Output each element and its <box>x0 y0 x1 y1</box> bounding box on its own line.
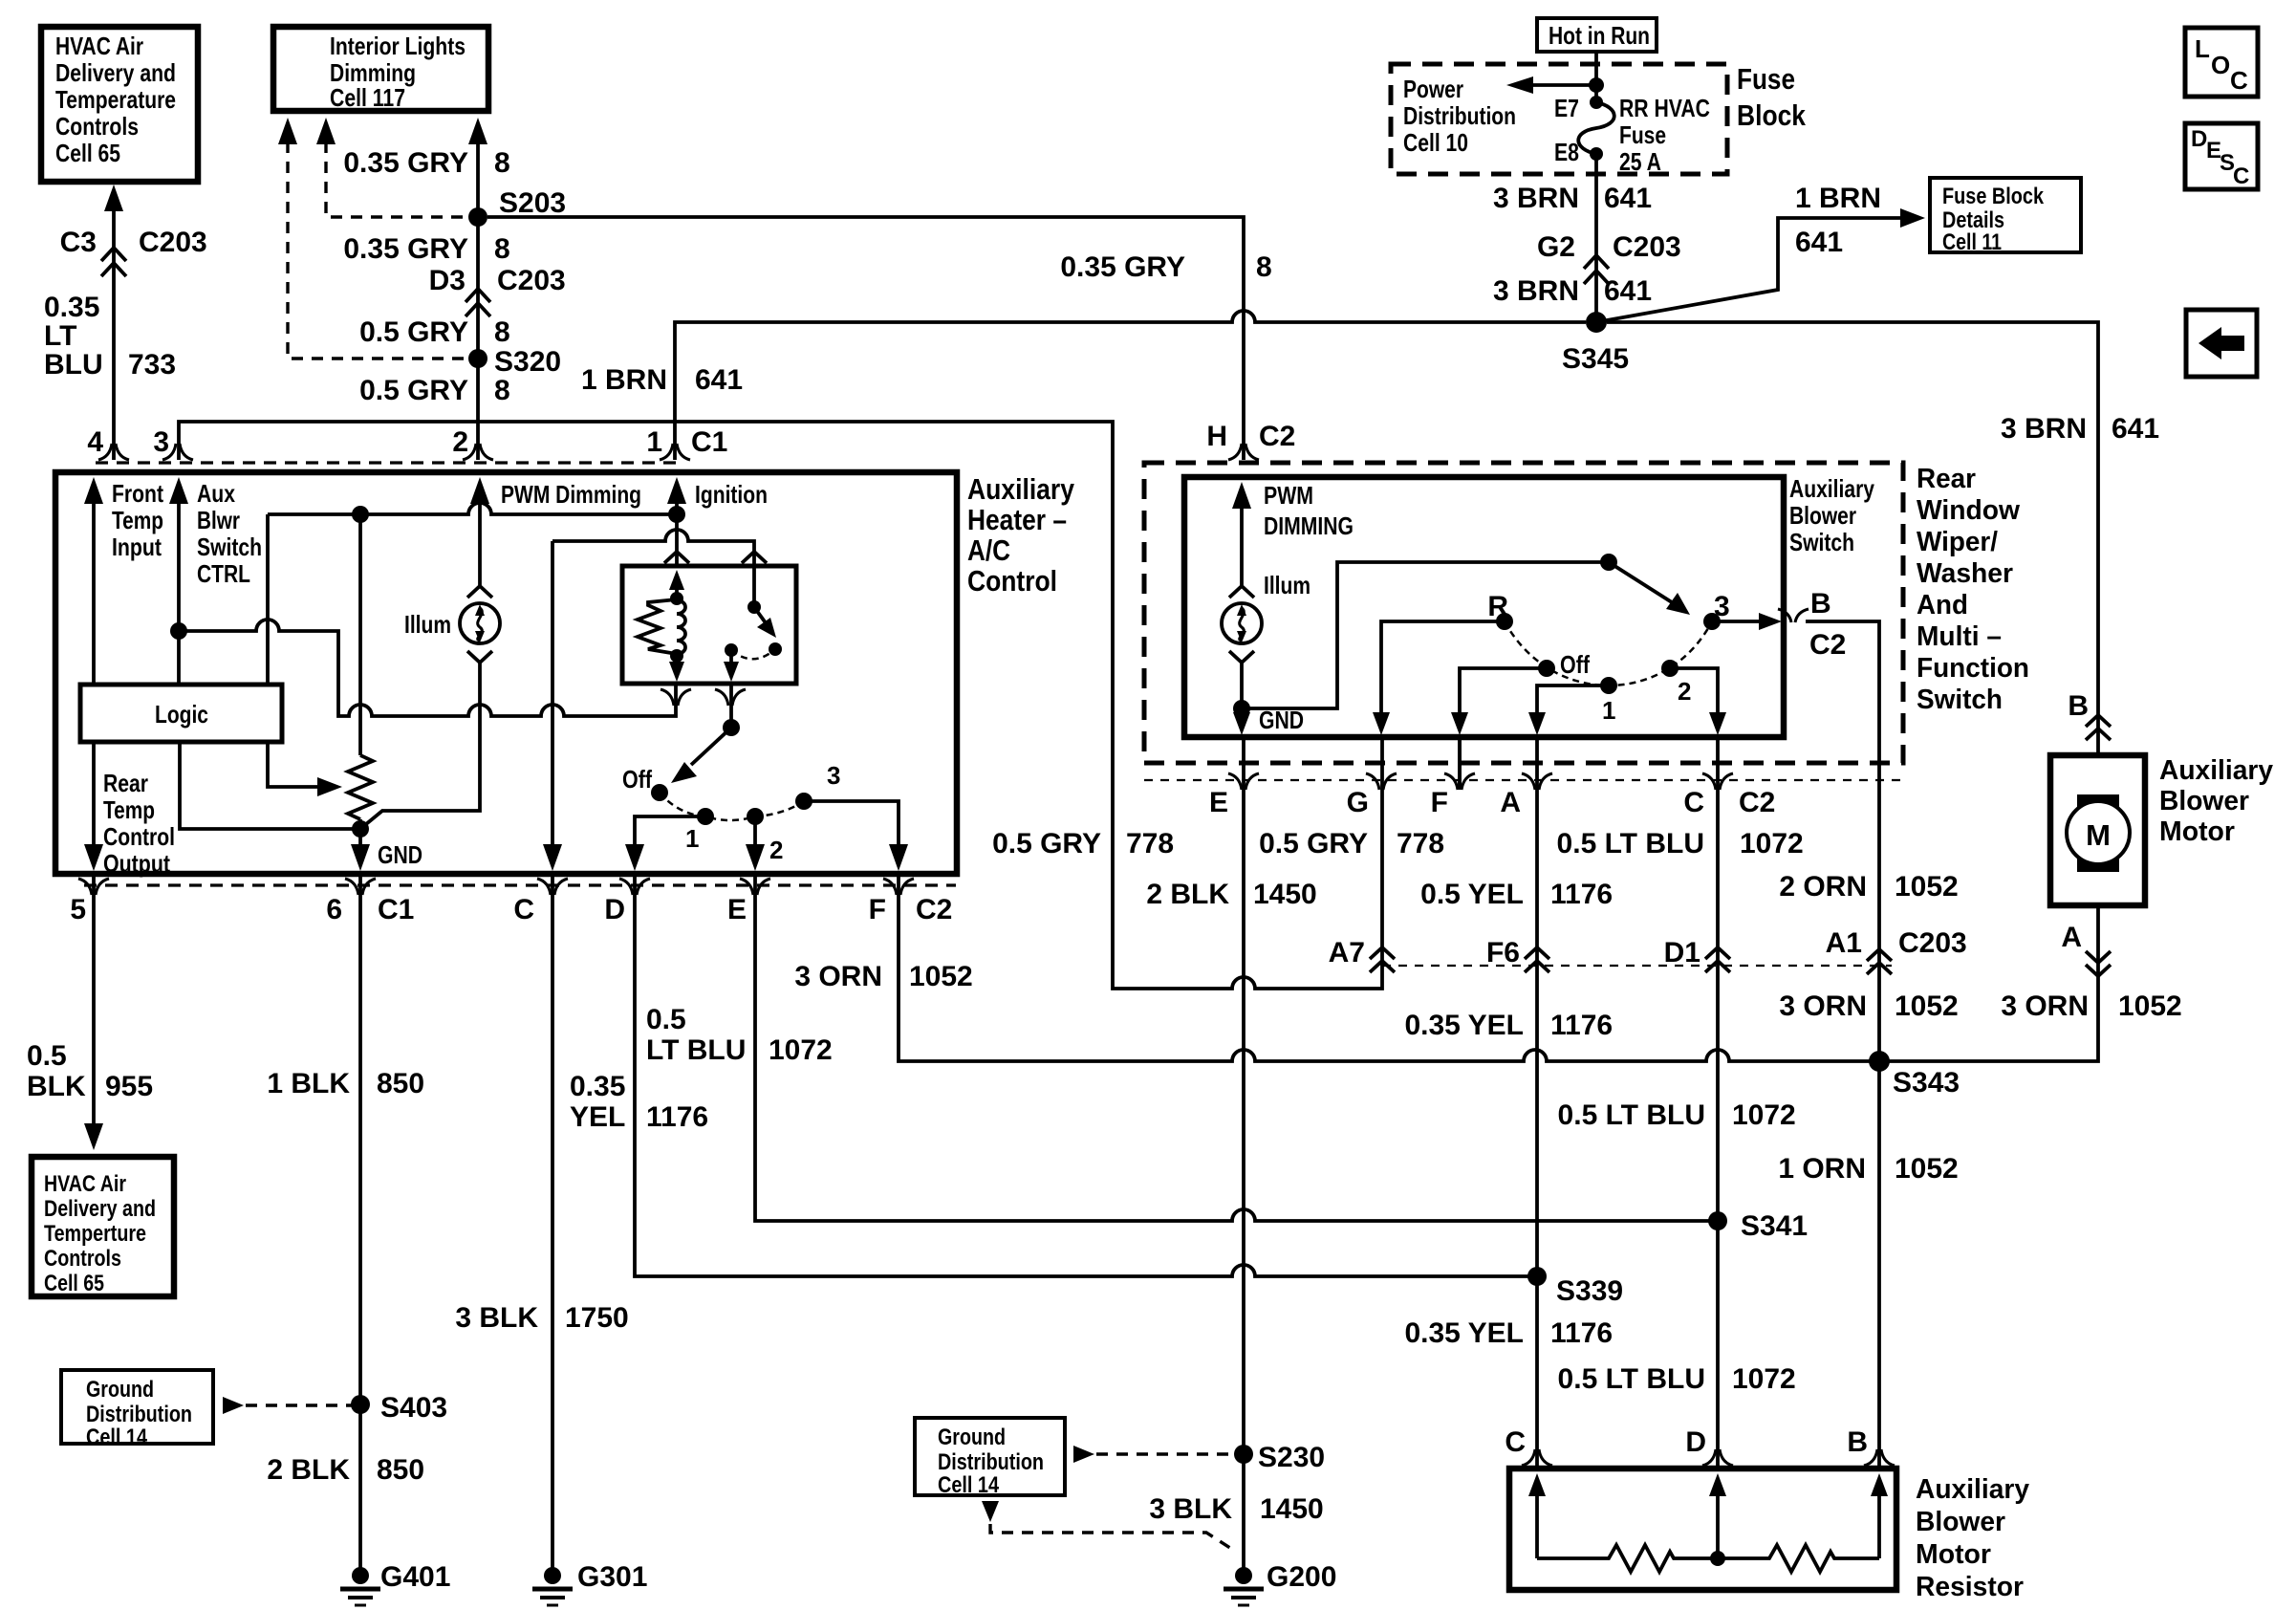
svg-text:F6: F6 <box>1486 937 1520 968</box>
pin brace 5 <box>78 879 109 895</box>
wire 3 ORN 1052 motor A to S343 <box>1879 905 2098 1061</box>
splice S339 <box>1527 1267 1547 1286</box>
svg-text:B: B <box>1810 588 1831 620</box>
splice S341 <box>1708 1211 1727 1230</box>
connector D1 C203 chevrons on C wire <box>1664 937 1730 972</box>
dashed link to S403 <box>223 1397 354 1414</box>
svg-text:H: H <box>1206 421 1227 452</box>
label 1 ORN 1052 (below S343) <box>1778 1153 1958 1185</box>
pin: Aux Blwr Switch CTRL (arrow up) <box>169 477 262 685</box>
connector D3 / C203 chevrons <box>466 289 490 316</box>
svg-text:1072: 1072 <box>769 1034 833 1066</box>
svg-text:Blwr: Blwr <box>197 506 240 534</box>
contact 2 <box>1661 660 1679 677</box>
label Auxiliary Blower Motor <box>2159 755 2273 847</box>
svg-text:E: E <box>727 894 747 925</box>
pin brace D <box>619 879 650 895</box>
svg-text:850: 850 <box>377 1068 424 1099</box>
label 3 ORN 1052 (above S343) <box>1779 990 1958 1022</box>
svg-text:Switch: Switch <box>197 533 262 561</box>
box: HVAC Air Delivery and Temperture Controls Cell 65 (bottom) <box>32 1157 174 1296</box>
svg-text:733: 733 <box>128 349 176 381</box>
svg-text:Off: Off <box>622 765 652 794</box>
resistor element D-B <box>1718 1545 1879 1572</box>
svg-text:LT BLU: LT BLU <box>646 1034 746 1066</box>
svg-text:1: 1 <box>685 824 699 853</box>
pin: Front Temp Input (arrow up) <box>84 477 163 685</box>
svg-text:2: 2 <box>452 426 468 458</box>
svg-text:S339: S339 <box>1556 1275 1623 1307</box>
label 2 BLK 850 <box>267 1454 424 1486</box>
svg-text:641: 641 <box>1604 275 1652 307</box>
svg-text:Off: Off <box>1560 650 1590 679</box>
svg-text:3: 3 <box>153 426 169 458</box>
svg-text:Fuse Block: Fuse Block <box>1942 184 2045 209</box>
svg-text:Cell 117: Cell 117 <box>330 83 405 112</box>
svg-text:Fuse: Fuse <box>1619 120 1666 149</box>
wire R to pin G <box>1373 621 1505 735</box>
wire pin C riser (x578 down) <box>543 541 562 871</box>
svg-text:Temp: Temp <box>112 506 163 534</box>
svg-text:Cell 10: Cell 10 <box>1403 128 1468 157</box>
pin: PWM DIMMING input (arrow up) <box>1232 481 1354 585</box>
wire 3 to pin B (arrow right) <box>1712 613 1782 630</box>
blower switch pivot <box>1600 554 1617 571</box>
svg-text:F: F <box>1431 787 1448 818</box>
svg-text:1750: 1750 <box>565 1302 629 1334</box>
wiper arrow from Logic to pot <box>268 742 342 796</box>
svg-text:2 ORN: 2 ORN <box>1779 871 1867 903</box>
svg-text:HVAC Air: HVAC Air <box>55 32 143 60</box>
label 0.5 LT BLU 1072 (pin E) <box>646 1004 833 1066</box>
svg-text:D3: D3 <box>429 265 466 296</box>
wire 0.5 LT BLU 1072: heater pin E right to S341 <box>755 874 1718 1221</box>
svg-text:C: C <box>1683 787 1704 818</box>
box: Auxiliary Heater A/C Control <box>55 472 957 874</box>
arrow to Power Distribution (left) <box>1506 76 1596 94</box>
label 0.5 LT BLU 1072 (switch pin C) <box>1557 828 1804 859</box>
label 0.5 YEL 1176 <box>1420 879 1613 910</box>
wire 1 BLK 850: heater pin 6 to S403 to G401 <box>358 874 362 1568</box>
splice S343 <box>1869 1051 1890 1072</box>
svg-text:C203: C203 <box>1898 927 1967 959</box>
dashed box: Fuse Block <box>1391 64 1727 174</box>
svg-text:M: M <box>2086 818 2111 852</box>
svg-text:PWM Dimming: PWM Dimming <box>501 480 641 509</box>
svg-text:E7: E7 <box>1554 94 1579 122</box>
svg-text:3 BRN: 3 BRN <box>2001 413 2087 445</box>
pin brace E (switch row) <box>1228 773 1259 790</box>
svg-text:Motor: Motor <box>2159 816 2235 847</box>
relay coil <box>677 600 685 654</box>
connector chevrons motor A (pointing down) <box>2086 951 2111 976</box>
svg-text:Delivery and: Delivery and <box>55 58 176 87</box>
wire 2 BLK 1450: switch pin E down to S230 and G200 <box>1242 737 1245 1568</box>
svg-text:1072: 1072 <box>1732 1363 1796 1395</box>
label D3 C203 <box>429 265 566 296</box>
svg-text:1052: 1052 <box>2118 990 2182 1022</box>
svg-text:8: 8 <box>494 147 510 179</box>
svg-text:D: D <box>1685 1426 1706 1458</box>
svg-text:Distribution: Distribution <box>86 1402 192 1427</box>
svg-text:Switch: Switch <box>1917 685 2003 715</box>
svg-text:C1: C1 <box>691 426 727 458</box>
dashed box: Rear Window Wiper/Washer And Multi-Function Switch <box>1144 463 1903 763</box>
wire 3 BLK 1750: heater pin C to G301 <box>551 874 554 1568</box>
svg-text:And: And <box>1917 590 1968 620</box>
svg-text:0.5 GRY: 0.5 GRY <box>992 828 1101 859</box>
svg-text:Auxiliary: Auxiliary <box>967 472 1075 506</box>
label 3 BRN 641 (below G2) <box>1493 275 1652 307</box>
wire 3 ORN 1052: heater pin F right to S343 <box>899 874 1879 1061</box>
svg-text:3 ORN: 3 ORN <box>794 961 882 992</box>
contact R <box>1496 613 1513 630</box>
svg-text:8: 8 <box>1256 251 1272 283</box>
wire gnd node to switch pivot <box>1242 562 1609 708</box>
svg-text:1 BRN: 1 BRN <box>581 364 667 396</box>
pin brace 1 <box>660 444 690 460</box>
svg-text:8: 8 <box>494 375 510 406</box>
svg-text:Interior Lights: Interior Lights <box>330 32 466 60</box>
connector A1 C203 chevrons on ORN wire <box>1826 927 1967 974</box>
wire 3 BRN 641: S345 left run to C1 pin 1 riser <box>675 311 1586 460</box>
connector C3 / C203 (in-line chevrons) <box>101 248 126 276</box>
svg-text:3 ORN: 3 ORN <box>2001 990 2089 1022</box>
box: DESC <box>2185 123 2258 189</box>
resistor internal: C leg arrow <box>1528 1473 1546 1558</box>
resistor pin braces C D B <box>1522 1449 1552 1466</box>
wire logic ground to GND node <box>180 742 360 829</box>
box: Ground Distribution Cell 14 (left) <box>61 1370 213 1450</box>
svg-text:0.35 GRY: 0.35 GRY <box>343 147 468 179</box>
svg-text:1450: 1450 <box>1260 1493 1324 1525</box>
label 3 ORN 1052 (motor A) <box>2001 990 2181 1022</box>
svg-text:1 ORN: 1 ORN <box>1778 1153 1866 1185</box>
svg-text:0.35: 0.35 <box>44 292 99 323</box>
wire contact 1 to pin D <box>625 816 705 871</box>
svg-text:A1: A1 <box>1826 927 1862 959</box>
svg-text:Illum: Illum <box>1264 571 1310 599</box>
wire aux blwr to relay coil (hops x280, x377, x502, x578) <box>179 620 676 716</box>
svg-text:D1: D1 <box>1664 937 1700 968</box>
svg-text:Hot in Run: Hot in Run <box>1549 21 1650 50</box>
svg-text:0.5 GRY: 0.5 GRY <box>359 375 468 406</box>
svg-text:Distribution: Distribution <box>1403 101 1516 130</box>
ground G401 <box>340 1561 450 1605</box>
connector row below switch (dashed) <box>1144 779 1902 781</box>
svg-text:1176: 1176 <box>1550 1010 1613 1041</box>
svg-text:BLK: BLK <box>27 1071 86 1102</box>
svg-text:641: 641 <box>695 364 743 396</box>
svg-text:641: 641 <box>2112 413 2159 445</box>
pin brace G <box>1366 773 1397 790</box>
motor: Auxiliary Blower Motor <box>2050 755 2145 905</box>
wire 1 to pin A <box>1528 685 1609 735</box>
label Rear Window Wiper/Washer And Multi-Function Switch <box>1917 464 2029 715</box>
svg-text:0.5 YEL: 0.5 YEL <box>1420 879 1524 910</box>
label 2 ORN 1052 (switch B riser) <box>1779 871 1958 903</box>
svg-text:Heater –: Heater – <box>967 503 1067 536</box>
svg-text:C203: C203 <box>139 227 207 258</box>
svg-text:1072: 1072 <box>1732 1099 1796 1131</box>
pin brace F <box>1444 773 1475 790</box>
wire 0.35 YEL 1176: switch pin A down through F6 to S339 and resistor C <box>1535 737 1539 1469</box>
relay resistor (parallel with coil) <box>638 599 677 654</box>
wire Rear Temp Control Output (logic to pin 5) <box>84 742 175 878</box>
svg-text:0.35 YEL: 0.35 YEL <box>1404 1010 1524 1041</box>
svg-text:B: B <box>1847 1426 1868 1458</box>
box: HVAC Air Delivery and Temperature Controls Cell 65 (top left) <box>41 27 198 182</box>
splice S230 <box>1234 1445 1253 1464</box>
connector brace below relay contact <box>715 689 746 706</box>
svg-text:0.5 GRY: 0.5 GRY <box>1259 828 1368 859</box>
svg-text:Window: Window <box>1917 495 2020 526</box>
box: Logic <box>80 685 282 742</box>
svg-text:3: 3 <box>1714 591 1730 622</box>
pin: PWM Dimming (arrow up) <box>470 477 641 585</box>
svg-text:A/C: A/C <box>967 533 1010 567</box>
svg-text:O: O <box>2211 51 2230 79</box>
svg-text:Auxiliary: Auxiliary <box>1916 1474 2029 1505</box>
svg-text:C2: C2 <box>1739 787 1775 818</box>
svg-text:Controls: Controls <box>55 112 139 141</box>
svg-text:778: 778 <box>1126 828 1174 859</box>
connector chevron on relay right riser <box>742 552 767 563</box>
svg-text:C2: C2 <box>916 894 952 925</box>
box: Auxiliary Blower Switch (inner solid) <box>1184 477 1784 737</box>
wire lamp to GND pin <box>1240 663 1244 709</box>
svg-text:Temp: Temp <box>103 795 155 824</box>
wire contact 3 to pin F <box>804 801 908 871</box>
svg-text:G: G <box>1347 787 1369 818</box>
wire 0.5 GRY 778: C1 pin3 up, right, down to A7 and switch G pin <box>179 422 1382 989</box>
label Auxiliary Blower Motor Resistor <box>1916 1474 2029 1602</box>
svg-text:Input: Input <box>112 533 162 561</box>
svg-text:S230: S230 <box>1258 1442 1325 1473</box>
svg-text:Auxiliary: Auxiliary <box>1789 474 1874 503</box>
svg-text:Fuse: Fuse <box>1737 62 1795 96</box>
svg-text:2: 2 <box>769 836 783 864</box>
svg-text:Washer: Washer <box>1917 558 2013 589</box>
wire 0.35 GRY 8 (vertical through S203/S320 to C1 pin 2) <box>468 118 487 460</box>
box: Auxiliary Blower Motor Resistor <box>1509 1469 1896 1590</box>
label H C2 <box>1206 421 1295 452</box>
node lamp/ground junction <box>1233 700 1250 717</box>
labels 1 2 3 <box>685 761 840 864</box>
svg-text:Motor: Motor <box>1916 1539 1991 1570</box>
box: LOC (top right) <box>2185 28 2258 97</box>
svg-text:HVAC Air: HVAC Air <box>44 1171 126 1197</box>
svg-text:Ignition: Ignition <box>695 480 768 509</box>
wire 0.35 YEL 1176: heater pin D right to S339 <box>635 874 1537 1276</box>
svg-text:Cell 14: Cell 14 <box>86 1425 148 1450</box>
wire x280 down to Logic <box>266 514 270 685</box>
svg-text:S320: S320 <box>494 346 561 378</box>
svg-text:1052: 1052 <box>1895 871 1959 903</box>
wire relay output to fan switch pivot <box>729 684 733 728</box>
relay contacts <box>725 643 738 657</box>
label 0.5 GRY 8 (third) <box>359 316 510 348</box>
svg-text:D: D <box>604 894 625 925</box>
svg-text:Distribution: Distribution <box>938 1449 1044 1475</box>
label 1 BRN 641 pin1 C1 <box>581 364 743 396</box>
svg-text:Ground: Ground <box>938 1425 1006 1450</box>
pin brace 3 <box>162 444 193 460</box>
svg-text:Cell 65: Cell 65 <box>55 139 120 167</box>
wire 2 ORN 1052 switch B output <box>1806 621 1879 1469</box>
svg-text:E: E <box>1209 787 1228 818</box>
ground G301 <box>532 1561 647 1605</box>
lamp Illum (heater panel) <box>404 586 500 663</box>
label 0.5 LT BLU 1072 (above S341) <box>1558 1099 1796 1131</box>
svg-text:S343: S343 <box>1893 1067 1960 1099</box>
node on ignition wire <box>668 506 685 523</box>
svg-text:Cell 14: Cell 14 <box>938 1472 1000 1498</box>
label Auxiliary Blower Switch <box>1789 474 1874 556</box>
connector C203 dashed row <box>1382 965 1892 967</box>
label 0.5 GRY 778 (switch pin G) <box>1259 828 1444 859</box>
svg-text:L: L <box>2195 34 2210 63</box>
svg-text:Controls: Controls <box>44 1246 121 1272</box>
svg-text:CTRL: CTRL <box>197 559 250 588</box>
svg-text:Delivery and: Delivery and <box>44 1196 156 1222</box>
pin: Ignition (arrow up) <box>667 477 768 566</box>
svg-text:0.5 LT BLU: 0.5 LT BLU <box>1557 828 1704 859</box>
label 0.35 GRY 8 (second) <box>343 233 509 265</box>
wire Off to pin F <box>1451 668 1547 735</box>
contact Off <box>1538 660 1555 677</box>
label 3 BLK 1450 <box>1149 1493 1323 1525</box>
svg-text:G2: G2 <box>1537 231 1575 263</box>
label 3 BRN 641 (above G2) <box>1493 183 1652 214</box>
svg-text:A7: A7 <box>1329 937 1365 968</box>
svg-text:C203: C203 <box>1613 231 1681 263</box>
svg-text:G401: G401 <box>380 1561 450 1593</box>
svg-text:A: A <box>2061 922 2082 953</box>
node at power distribution tap <box>1589 77 1604 93</box>
wire from S203 right to H C2 (0.35 GRY 8) <box>487 217 1244 460</box>
bottom pin labels 5 6 C1 C D E F C2 <box>70 894 952 925</box>
label 0.5 LT BLU 1072 (below S341) <box>1558 1363 1796 1395</box>
label Auxiliary Heater - A/C Control <box>967 472 1075 598</box>
svg-text:3 BLK: 3 BLK <box>1149 1493 1232 1525</box>
svg-text:25 A: 25 A <box>1619 147 1661 176</box>
svg-text:S345: S345 <box>1562 343 1629 375</box>
resistor internal: B leg arrow <box>1871 1473 1888 1558</box>
svg-text:3 BRN: 3 BRN <box>1493 275 1579 307</box>
label 0.35 GRY 8 (upper) <box>343 147 509 179</box>
fan switch pivot <box>723 719 740 736</box>
wire 1 BRN 641 from S345 to Fuse Block Details <box>1596 208 1925 322</box>
node relay coil bottom <box>670 649 683 663</box>
svg-text:0.5: 0.5 <box>27 1040 67 1072</box>
label 0.35 YEL 1176 (below S339) <box>1404 1317 1613 1349</box>
svg-text:Output: Output <box>103 849 170 878</box>
node at resistor D junction <box>1710 1551 1725 1566</box>
box: Fuse Block Details Cell 11 <box>1930 178 2081 255</box>
svg-text:Control: Control <box>103 822 175 851</box>
svg-text:D: D <box>2191 126 2207 152</box>
svg-text:5: 5 <box>70 894 86 925</box>
fan switch arm to Off <box>671 728 731 783</box>
svg-text:8: 8 <box>494 233 510 265</box>
svg-text:1052: 1052 <box>909 961 973 992</box>
splice S320 <box>468 349 487 368</box>
svg-text:0.35: 0.35 <box>570 1071 625 1102</box>
GND arrow down <box>1233 706 1304 735</box>
svg-text:Resistor: Resistor <box>1916 1572 2024 1602</box>
svg-text:RR HVAC: RR HVAC <box>1619 94 1710 122</box>
svg-text:0.5 LT BLU: 0.5 LT BLU <box>1558 1099 1705 1131</box>
contact 1 <box>1600 677 1617 694</box>
fuse RR HVAC 25A (S-curve) <box>1578 96 1614 161</box>
svg-text:955: 955 <box>105 1071 153 1102</box>
pin brace 6 <box>345 879 376 895</box>
splice S345 <box>1586 312 1607 333</box>
label 0.35 GRY 8 (on H C2 drop) <box>1060 251 1271 283</box>
svg-text:Rear: Rear <box>1917 464 1976 494</box>
pin brace E <box>740 879 770 895</box>
label C3 C203 <box>60 227 207 258</box>
svg-text:Illum: Illum <box>404 610 451 639</box>
svg-text:C2: C2 <box>1259 421 1295 452</box>
svg-text:4: 4 <box>87 426 103 458</box>
svg-text:C: C <box>513 894 534 925</box>
dashed wire from S203 up to Interior Lights box <box>316 118 466 217</box>
box: heater relay <box>622 566 796 684</box>
label B C2 (switch output) <box>1809 588 1846 661</box>
splice S203 <box>468 207 487 227</box>
box: back arrow <box>2186 310 2257 377</box>
resistor element C-D <box>1537 1545 1718 1572</box>
dashed link from box bottom toward G200 <box>982 1501 1236 1552</box>
svg-text:GND: GND <box>378 840 422 869</box>
svg-text:E8: E8 <box>1554 138 1579 166</box>
svg-text:1: 1 <box>1602 696 1615 725</box>
node: aux blwr junction <box>170 622 187 640</box>
svg-text:Power: Power <box>1403 75 1463 103</box>
svg-text:3 BLK: 3 BLK <box>455 1302 538 1334</box>
svg-text:Control: Control <box>967 564 1057 598</box>
svg-text:2 BLK: 2 BLK <box>267 1454 350 1486</box>
svg-text:Switch: Switch <box>1789 528 1854 556</box>
svg-text:0.35 GRY: 0.35 GRY <box>1060 251 1185 283</box>
svg-text:YEL: YEL <box>570 1101 625 1133</box>
svg-text:Blower: Blower <box>2159 786 2249 816</box>
svg-text:Multi –: Multi – <box>1917 621 2002 652</box>
connector chevron on ignition wire <box>664 552 689 563</box>
label RR HVAC Fuse 25 A <box>1619 94 1710 176</box>
svg-text:Temperature: Temperature <box>55 85 176 114</box>
relay output arrow down <box>724 650 739 682</box>
svg-text:Ground: Ground <box>86 1377 154 1403</box>
label 0.5 GRY 8 (fourth) <box>359 375 510 406</box>
svg-text:LT: LT <box>44 320 76 352</box>
pin brace C <box>537 879 568 895</box>
svg-text:0.5: 0.5 <box>646 1004 686 1035</box>
svg-text:R: R <box>1487 591 1508 622</box>
node on pot wire <box>352 506 369 523</box>
pin brace A <box>1522 773 1552 790</box>
wire 3 BRN 641 fuse to S345 <box>1594 154 1598 322</box>
wire Hot in Run down into fuse block <box>1594 52 1598 102</box>
node relay coil top <box>670 592 683 605</box>
svg-text:850: 850 <box>377 1454 424 1486</box>
wire contact 2 to pin E <box>746 816 765 871</box>
node: GND junction <box>352 820 369 838</box>
arrow out of relay coil bottom <box>669 656 684 682</box>
C1 pin labels <box>87 426 727 458</box>
